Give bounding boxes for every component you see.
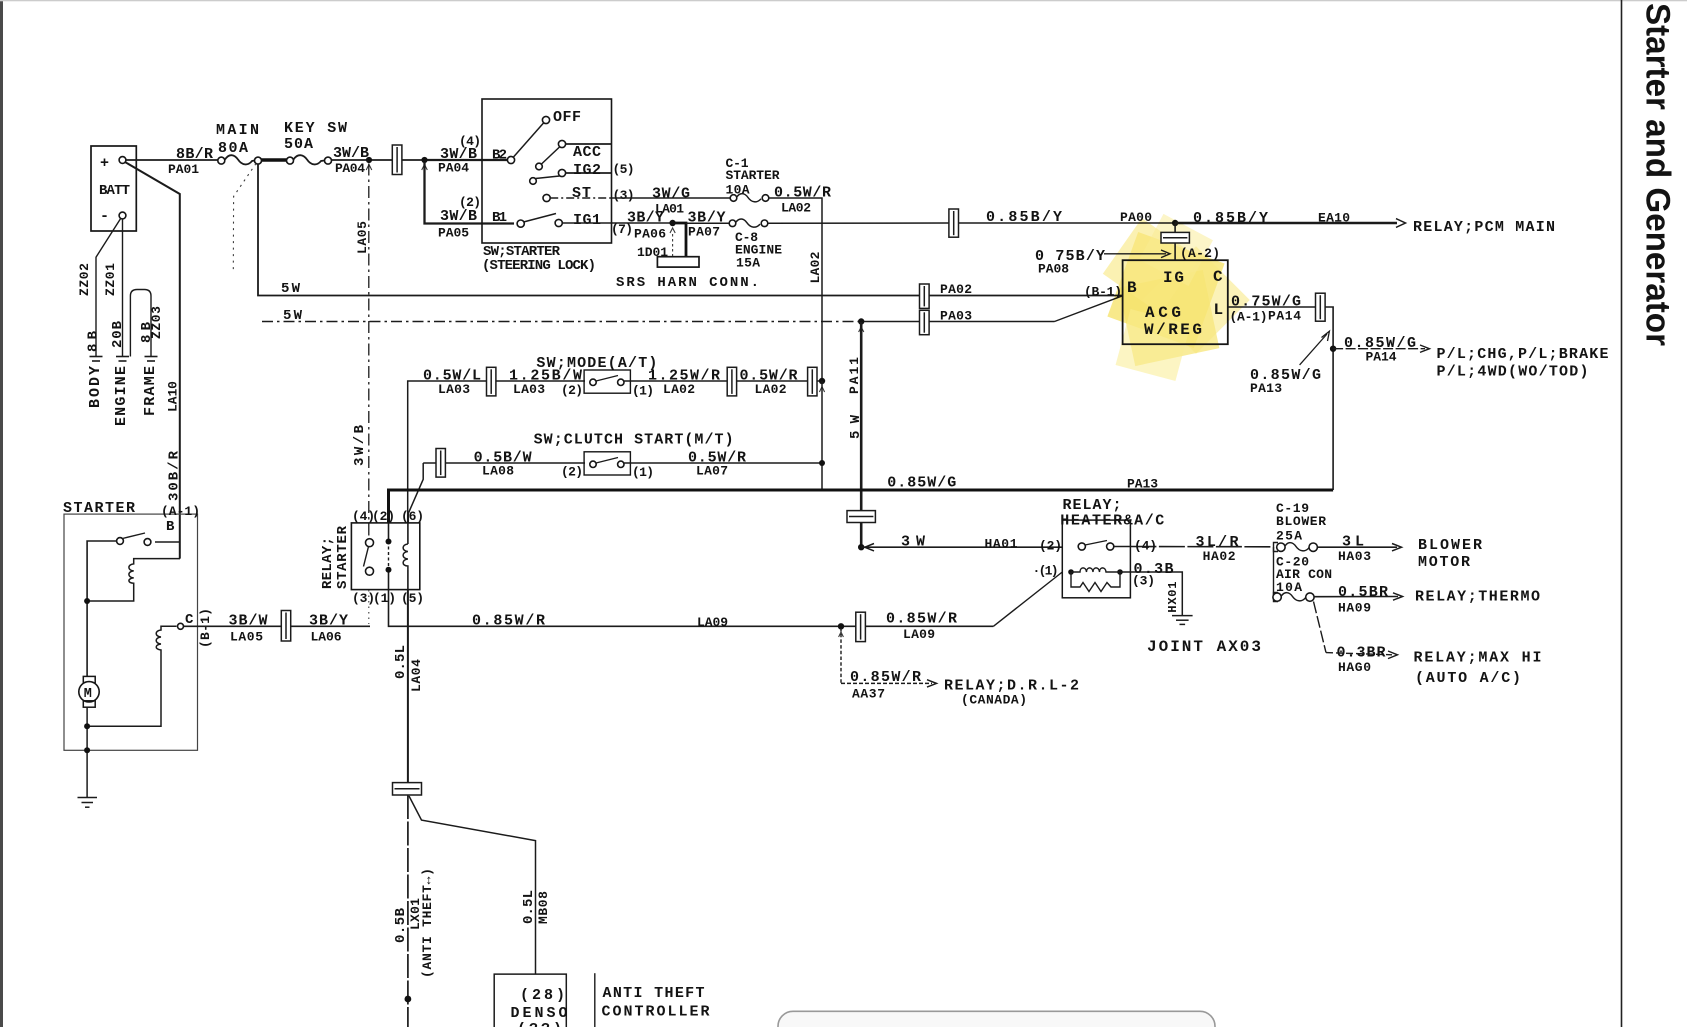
svg-text:PA06: PA06 bbox=[634, 227, 666, 242]
relay starter coil bbox=[407, 523, 409, 590]
motor STARTER box bbox=[64, 514, 198, 750]
svg-text:LA09: LA09 bbox=[697, 615, 728, 630]
wire switch to motor bbox=[87, 541, 117, 676]
svg-text:15A: 15A bbox=[736, 256, 760, 271]
svg-text:ENGINE: ENGINE bbox=[113, 366, 130, 426]
svg-text:LA07: LA07 bbox=[696, 464, 728, 479]
svg-text:SRS HARN CONN.: SRS HARN CONN. bbox=[616, 275, 759, 291]
wire branch to DENSO bbox=[409, 796, 536, 974]
svg-text:(1): (1) bbox=[632, 384, 654, 399]
wire diagonal to heater relay pin1 bbox=[993, 572, 1062, 626]
svg-text:(CANADA): (CANADA) bbox=[961, 693, 1027, 708]
node AA37 junction bbox=[838, 623, 844, 629]
svg-text:(2): (2) bbox=[561, 383, 583, 398]
wire IG1 row to C-8 fuse bbox=[686, 222, 729, 224]
battery - terminal bbox=[119, 212, 126, 219]
battery BATT box bbox=[91, 146, 136, 231]
svg-text:3B/W: 3B/W bbox=[229, 613, 268, 630]
contact ACC bbox=[536, 163, 543, 170]
wire fuse link C19-C20 bbox=[1273, 547, 1275, 597]
wire thick segment between fuses bbox=[262, 158, 287, 161]
wire 1.25W/R bbox=[624, 380, 822, 382]
svg-text:LA05: LA05 bbox=[230, 630, 263, 645]
wire 3W to heater relay bbox=[861, 546, 1062, 548]
svg-text:(STEERING LOCK): (STEERING LOCK) bbox=[482, 258, 596, 274]
svg-text:(2): (2) bbox=[372, 509, 395, 524]
sidebar divider line bbox=[1621, 0, 1623, 1027]
svg-text:HA02: HA02 bbox=[1203, 549, 1236, 564]
page left edge bar bbox=[0, 0, 3, 1027]
connector LA09 bbox=[856, 612, 866, 641]
wire 3L/R row bbox=[1130, 546, 1271, 548]
svg-text:(A-1): (A-1) bbox=[161, 504, 200, 519]
wire PA00 to EA10 junction bbox=[959, 222, 1177, 224]
wire battery+ to MAIN fuse bbox=[126, 159, 218, 161]
wire LA05 dash vertical bbox=[368, 164, 370, 541]
svg-text:IG1: IG1 bbox=[573, 212, 601, 229]
svg-text:·(1): ·(1) bbox=[1033, 564, 1059, 579]
wire relay pin1 down to 0.85W/R bbox=[389, 590, 994, 626]
svg-text:(3): (3) bbox=[1132, 574, 1155, 589]
node EA10 junction bbox=[1172, 220, 1178, 226]
svg-text:50A: 50A bbox=[284, 136, 313, 153]
svg-text:HX01: HX01 bbox=[1166, 582, 1180, 613]
svg-text:IG: IG bbox=[1163, 269, 1184, 287]
svg-text:C: C bbox=[1213, 268, 1223, 286]
svg-text:EA10: EA10 bbox=[1318, 211, 1350, 226]
svg-text:PA11: PA11 bbox=[847, 357, 862, 394]
wire 0.3BR to relay max hi bbox=[1314, 602, 1327, 653]
svg-text:30B/R: 30B/R bbox=[167, 450, 183, 501]
svg-text:MB08: MB08 bbox=[536, 891, 551, 924]
svg-text:0.5W/R: 0.5W/R bbox=[774, 185, 831, 202]
svg-text:OFF: OFF bbox=[553, 109, 581, 126]
svg-text:LA10: LA10 bbox=[166, 381, 181, 412]
highlighter yellow blob over ACG bbox=[1103, 214, 1250, 381]
wire diagonal battery+ to 30B/R bbox=[125, 162, 180, 559]
wire AA37 branch bbox=[840, 628, 842, 683]
ground FRAME bbox=[145, 357, 158, 362]
svg-text:20B: 20B bbox=[110, 320, 126, 348]
svg-text:0.3BR: 0.3BR bbox=[1337, 645, 1386, 662]
svg-text:PA13: PA13 bbox=[1250, 381, 1282, 396]
svg-text:LA03: LA03 bbox=[438, 382, 470, 397]
svg-text:IG2: IG2 bbox=[573, 162, 601, 179]
svg-text:BATT: BATT bbox=[99, 183, 130, 199]
wire ZZ01 battery- to ENGINE ground bbox=[122, 219, 124, 357]
svg-text:-: - bbox=[100, 208, 109, 225]
svg-text:(ANTI THEFT↔): (ANTI THEFT↔) bbox=[420, 868, 435, 978]
svg-text:BLOWER: BLOWER bbox=[1276, 514, 1326, 529]
node PA04 junction bbox=[366, 157, 372, 163]
connector LA02 mid bbox=[727, 367, 736, 396]
svg-text:LA05: LA05 bbox=[355, 221, 370, 254]
svg-text:0.85W/R: 0.85W/R bbox=[886, 611, 957, 628]
svg-text:RELAY;PCM MAIN: RELAY;PCM MAIN bbox=[1413, 219, 1555, 236]
svg-text:W/REG: W/REG bbox=[1144, 321, 1202, 339]
svg-text:SW;CLUTCH START(M/T): SW;CLUTCH START(M/T) bbox=[534, 432, 734, 449]
svg-text:RELAY;: RELAY; bbox=[320, 537, 336, 589]
connector LA02 right bbox=[808, 367, 817, 396]
svg-text:ACC: ACC bbox=[573, 144, 601, 161]
switch box SW CLUTCH bbox=[584, 452, 630, 475]
connector PA02 bbox=[920, 284, 930, 308]
svg-text:LA04: LA04 bbox=[409, 659, 424, 692]
svg-text:STARTER: STARTER bbox=[63, 500, 135, 517]
wire PA11 vertical bbox=[860, 322, 863, 547]
svg-text:B1: B1 bbox=[492, 210, 507, 226]
svg-text:LA02: LA02 bbox=[808, 251, 823, 283]
svg-text:P/L;4WD(WO/TOD): P/L;4WD(WO/TOD) bbox=[1437, 364, 1589, 381]
wire 3B/W C terminal row bbox=[184, 625, 371, 627]
node clutch output junction bbox=[819, 460, 825, 466]
svg-text:(A-2): (A-2) bbox=[1180, 246, 1220, 261]
svg-text:HA01: HA01 bbox=[985, 537, 1018, 552]
connector LA03 bbox=[487, 367, 496, 396]
wire motor to ground bbox=[86, 707, 88, 797]
contact OFF bbox=[514, 123, 544, 157]
svg-text:(4): (4) bbox=[1134, 539, 1157, 554]
wire clutch branch corner to relay pin6 bbox=[408, 463, 423, 523]
wire ZZ02 battery- to BODY ground bbox=[96, 218, 121, 356]
svg-text:3W/B: 3W/B bbox=[352, 424, 368, 466]
svg-text:FRAME: FRAME bbox=[142, 366, 159, 416]
svg-text:PA01: PA01 bbox=[168, 162, 199, 177]
svg-text:STARTER: STARTER bbox=[335, 525, 351, 589]
svg-text:M: M bbox=[84, 687, 92, 702]
svg-text:(6): (6) bbox=[401, 509, 424, 524]
wire LA02 vertical through bbox=[821, 381, 823, 463]
SRS HARN CONN box bbox=[657, 257, 699, 267]
wire 5W vertical drop from main fuse bbox=[258, 164, 1123, 296]
svg-text:P/L;CHG,P/L;BRAKE: P/L;CHG,P/L;BRAKE bbox=[1437, 346, 1609, 363]
svg-text:5W: 5W bbox=[283, 308, 303, 324]
relay RELAY;STARTER box bbox=[351, 523, 419, 590]
svg-text:(A-1): (A-1) bbox=[1230, 310, 1268, 325]
svg-text:0.5L: 0.5L bbox=[393, 645, 409, 679]
box DENSO bbox=[494, 974, 566, 1027]
svg-text:(5): (5) bbox=[401, 591, 424, 606]
tooltip rounded rect bottom bbox=[778, 1011, 1215, 1027]
svg-text:(1): (1) bbox=[373, 591, 396, 606]
relay starter pin2 link bbox=[388, 523, 390, 541]
svg-text:CONTROLLER: CONTROLLER bbox=[602, 1004, 710, 1021]
svg-text:(5): (5) bbox=[613, 162, 635, 177]
wire IG1 to PA06 junction bbox=[562, 222, 672, 224]
box ANTI THEFT CONTROLLER edge bbox=[594, 973, 596, 1027]
svg-text:B: B bbox=[166, 519, 175, 535]
svg-text:0.5B: 0.5B bbox=[393, 907, 409, 943]
svg-text:ZZ01: ZZ01 bbox=[103, 263, 118, 296]
svg-text:PA07: PA07 bbox=[688, 225, 720, 240]
svg-text:L: L bbox=[1214, 301, 1224, 319]
wire pin3 dotted stub bbox=[368, 590, 370, 624]
connector on PA11 line bbox=[847, 511, 875, 523]
svg-text:(B-1): (B-1) bbox=[1084, 285, 1122, 300]
wire 1D01 dashed to SRS bbox=[672, 234, 674, 257]
svg-text:LA02: LA02 bbox=[755, 382, 787, 397]
svg-text:0.85W/R: 0.85W/R bbox=[472, 613, 545, 630]
svg-text:PA08: PA08 bbox=[1038, 262, 1069, 277]
wire thick 0.85W/G PA13 bus bbox=[389, 490, 1334, 523]
svg-text:STARTER: STARTER bbox=[726, 168, 780, 183]
node PA11 junction on 5W line bbox=[858, 318, 864, 324]
svg-text:ACG: ACG bbox=[1145, 304, 1181, 322]
svg-text:80A: 80A bbox=[218, 140, 248, 157]
svg-text:PA03: PA03 bbox=[940, 309, 972, 324]
wire 3W/B drop to B1 bbox=[425, 162, 515, 224]
svg-text:LA06: LA06 bbox=[311, 630, 342, 645]
relay starter switch bbox=[366, 539, 374, 547]
connector on A-2 drop bbox=[1161, 232, 1189, 243]
wire key sw to B2 bbox=[332, 159, 426, 161]
page top edge line bbox=[0, 0, 1687, 1]
svg-text:BODY: BODY bbox=[87, 366, 104, 408]
svg-text:8B/R: 8B/R bbox=[176, 146, 213, 163]
svg-text:PA02: PA02 bbox=[940, 282, 972, 297]
wire 0.5W/L row bbox=[408, 381, 585, 523]
node 3W/B branch junction bbox=[421, 157, 427, 163]
svg-text:3W/G: 3W/G bbox=[652, 186, 690, 203]
starter switch contact bbox=[155, 541, 180, 543]
svg-text:HA09: HA09 bbox=[1338, 601, 1371, 616]
contact IG1 bbox=[524, 214, 557, 223]
connector PA03 bbox=[920, 310, 930, 334]
svg-text:(B-1): (B-1) bbox=[198, 608, 213, 648]
svg-text:HAG0: HAG0 bbox=[1338, 660, 1371, 675]
svg-text:3B/Y: 3B/Y bbox=[309, 613, 348, 630]
wire EA10 drop to ACG A-2 pin bbox=[1174, 223, 1176, 260]
svg-text:ANTI THEFT: ANTI THEFT bbox=[603, 985, 705, 1002]
node anti-theft junction bbox=[405, 996, 412, 1003]
wire 3L to blower motor bbox=[1317, 546, 1397, 548]
svg-text:LA02: LA02 bbox=[663, 382, 695, 397]
svg-text:ST: ST bbox=[572, 185, 591, 202]
solenoid coil 1 bbox=[90, 559, 180, 601]
generator ACG W/REG box bbox=[1123, 260, 1228, 344]
connector PA04 bbox=[392, 145, 402, 175]
svg-text:DENSO: DENSO bbox=[511, 1005, 568, 1022]
ground HX01 bbox=[1172, 616, 1193, 625]
wire 0.5B continues down bbox=[407, 795, 409, 1027]
connector PA14 bbox=[1316, 293, 1326, 321]
wire 0.5B/W row bbox=[423, 462, 585, 464]
ground starter bbox=[78, 798, 98, 808]
svg-text:PA04: PA04 bbox=[335, 161, 365, 176]
wire C-8 to PA00 connector bbox=[768, 222, 949, 224]
svg-text:MOTOR: MOTOR bbox=[1418, 554, 1470, 571]
connector PA00 bbox=[949, 209, 959, 237]
svg-text:3W/B: 3W/B bbox=[333, 145, 369, 162]
svg-text:ZZ02: ZZ02 bbox=[77, 263, 92, 296]
node SW MODE output junction bbox=[819, 378, 825, 384]
svg-text:HEATER&A/C: HEATER&A/C bbox=[1060, 513, 1164, 530]
contact ST bbox=[543, 194, 550, 201]
ground BODY bbox=[90, 357, 103, 362]
connector on LA04 line bbox=[393, 783, 422, 795]
svg-text:LA08: LA08 bbox=[482, 464, 514, 479]
svg-text:B2: B2 bbox=[492, 148, 507, 164]
wire FRAME U-link bbox=[130, 290, 151, 357]
wire 0.5BR to relay thermo bbox=[1314, 596, 1398, 598]
wire ST to C-1 fuse bbox=[550, 197, 611, 199]
wire relay pin5 down (0.5L LA04) bbox=[407, 590, 409, 783]
heater relay switch bbox=[1078, 543, 1085, 550]
svg-text:(3): (3) bbox=[352, 591, 375, 606]
svg-text:Starter and Generator: Starter and Generator bbox=[1639, 3, 1677, 346]
svg-text:0.85B/Y: 0.85B/Y bbox=[1193, 210, 1268, 227]
svg-text:RELAY;MAX HI: RELAY;MAX HI bbox=[1414, 650, 1542, 667]
wire L pin 0.75W/G bbox=[1228, 307, 1333, 490]
svg-text:0.5L: 0.5L bbox=[521, 890, 537, 924]
relay RELAY;HEATER&A/C box bbox=[1062, 520, 1130, 598]
wire EA10 to RELAY PCM MAIN bbox=[1175, 222, 1397, 224]
switch SW;STARTER (STEERING LOCK) box bbox=[482, 99, 612, 243]
solenoid coil 2 bbox=[90, 626, 177, 726]
node coil1 junction bbox=[84, 598, 90, 604]
ground ENGINE bbox=[116, 357, 129, 362]
svg-text:AA37: AA37 bbox=[852, 687, 885, 702]
wire PA07 drop to SRS bbox=[673, 223, 686, 257]
svg-text:(3): (3) bbox=[613, 188, 635, 203]
wire 0.5W/R from C-1 bbox=[769, 198, 822, 381]
svg-text:ZZ03: ZZ03 bbox=[149, 306, 164, 339]
svg-text:+: + bbox=[100, 155, 109, 172]
wire 0.3B to ground bbox=[1120, 572, 1182, 616]
wire faint dotted branch bbox=[233, 164, 256, 273]
svg-text:PA14: PA14 bbox=[1268, 309, 1301, 324]
svg-text:PA13: PA13 bbox=[1127, 477, 1158, 492]
svg-text:HA03: HA03 bbox=[1338, 549, 1371, 564]
svg-text:LA09: LA09 bbox=[903, 627, 935, 642]
contact IG2 bbox=[530, 178, 537, 185]
svg-text:PA14: PA14 bbox=[1366, 350, 1397, 365]
svg-text:(1): (1) bbox=[632, 465, 654, 480]
svg-text:5W: 5W bbox=[281, 281, 301, 297]
wire 0.85W/G PA14 arrow to P/L bbox=[1333, 348, 1425, 350]
svg-text:0.85B/Y: 0.85B/Y bbox=[986, 209, 1062, 226]
switch box SW MODE bbox=[584, 370, 630, 393]
motor M bbox=[83, 676, 95, 682]
terminal C bbox=[178, 623, 184, 629]
svg-text:(2): (2) bbox=[561, 465, 583, 480]
svg-text:B: B bbox=[1127, 279, 1137, 297]
svg-text:3W/B: 3W/B bbox=[440, 208, 477, 225]
svg-text:0.85W/G: 0.85W/G bbox=[887, 475, 956, 492]
svg-text:(2): (2) bbox=[1039, 539, 1062, 554]
wire 5W dash-dot lower bbox=[262, 321, 861, 323]
svg-text:25A: 25A bbox=[1276, 529, 1302, 544]
svg-text:1D01: 1D01 bbox=[637, 245, 668, 260]
node box bottom junction bbox=[84, 747, 90, 753]
wire 0.5W/R clutch bbox=[624, 462, 822, 464]
svg-text:0.5BR: 0.5BR bbox=[1338, 584, 1388, 601]
node PA06 bbox=[669, 220, 675, 226]
node motor bottom junction bbox=[84, 723, 90, 729]
svg-text:RELAY;: RELAY; bbox=[1063, 497, 1122, 514]
svg-text:RELAY;THERMO: RELAY;THERMO bbox=[1415, 589, 1540, 606]
connector LA05/LA06 bbox=[281, 611, 290, 642]
svg-text:PA05: PA05 bbox=[438, 226, 469, 241]
svg-text:JOINT AX03: JOINT AX03 bbox=[1147, 638, 1261, 656]
fuse C-8 ENGINE 15A bbox=[729, 220, 736, 227]
svg-text:3B/Y: 3B/Y bbox=[627, 210, 664, 227]
node PA14 branch junction bbox=[1330, 346, 1336, 352]
connector LA08 bbox=[436, 449, 445, 478]
svg-text:LA03: LA03 bbox=[513, 382, 545, 397]
svg-text:0.85W/R: 0.85W/R bbox=[850, 669, 921, 686]
battery + terminal bbox=[119, 157, 126, 164]
svg-text:(AUTO A/C): (AUTO A/C) bbox=[1415, 670, 1521, 687]
svg-text:PA04: PA04 bbox=[438, 161, 469, 176]
svg-text:LA02: LA02 bbox=[781, 201, 811, 216]
node 3W junction bbox=[858, 544, 864, 550]
